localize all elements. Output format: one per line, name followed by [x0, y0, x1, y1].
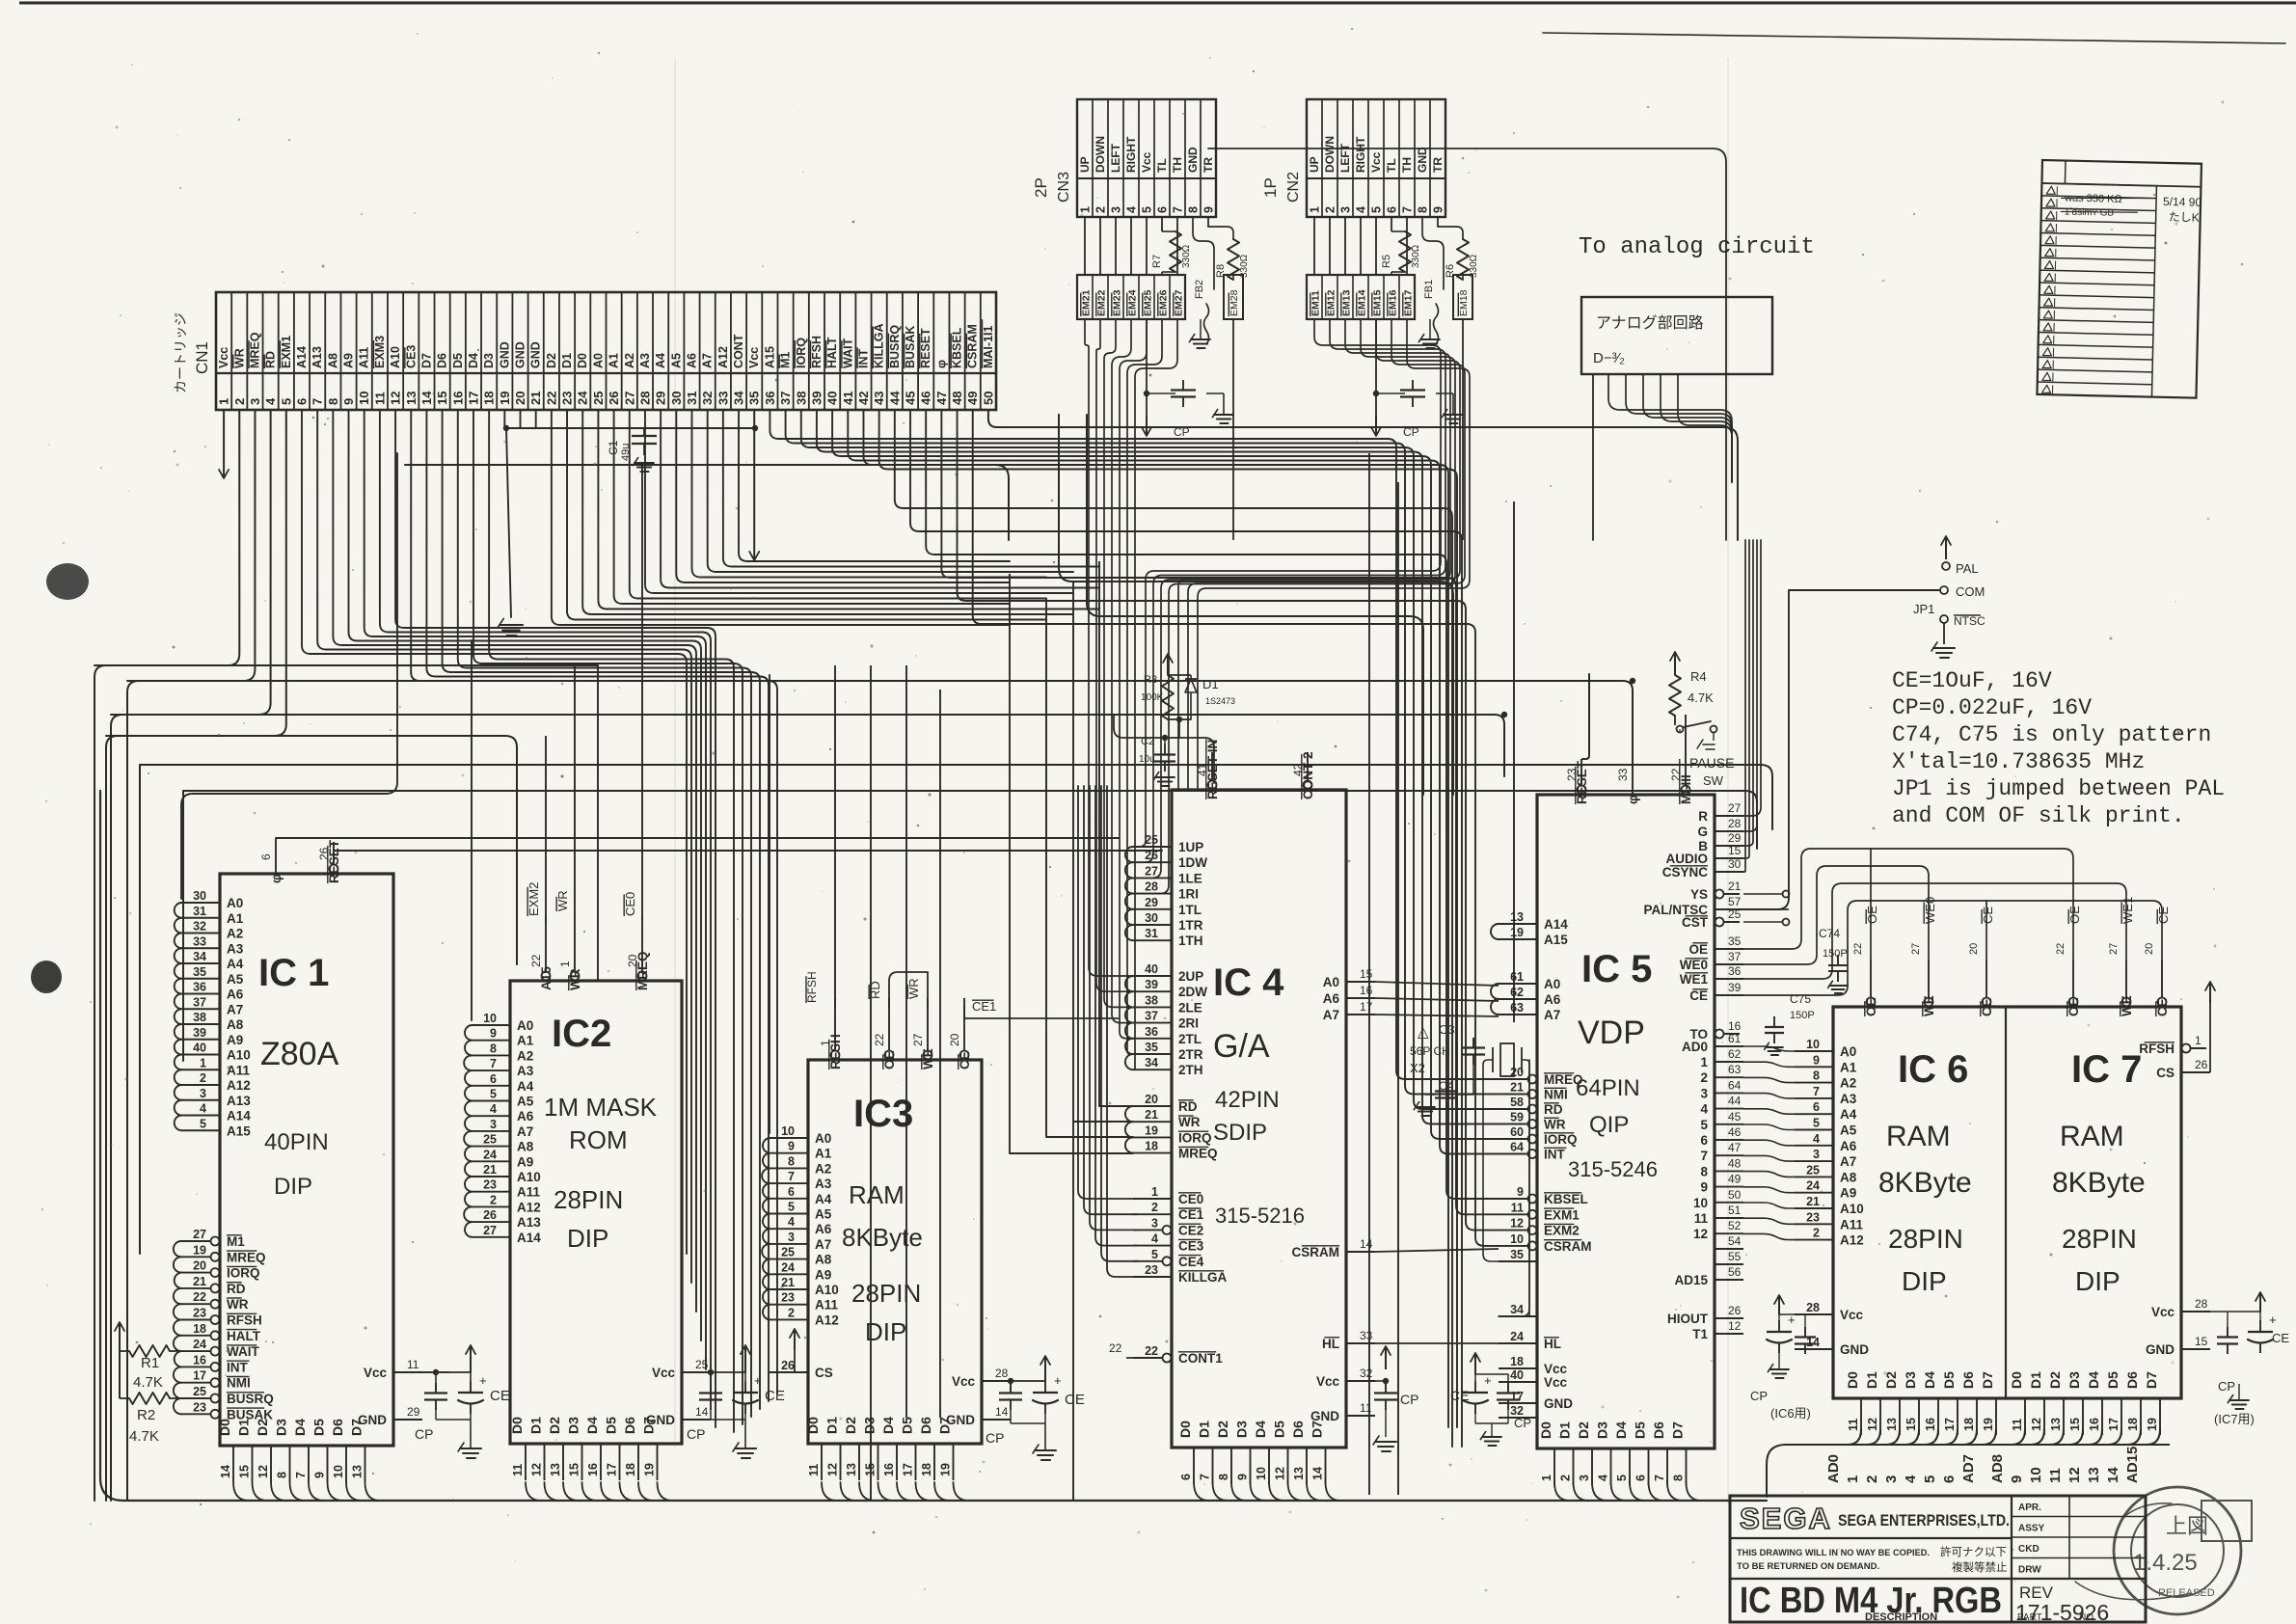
svg-text:A0: A0	[227, 896, 243, 910]
svg-text:A10: A10	[389, 346, 402, 368]
svg-text:2: 2	[1151, 1201, 1158, 1214]
scan ink blobs left margin	[31, 563, 89, 993]
svg-text:6: 6	[788, 1185, 795, 1199]
svg-text:CP: CP	[415, 1426, 433, 1442]
svg-text:OE: OE	[1864, 997, 1878, 1016]
svg-text:D6: D6	[622, 1417, 637, 1434]
svg-text:OE: OE	[1688, 942, 1708, 957]
svg-text:COM: COM	[1956, 584, 1985, 599]
svg-text:8KByte: 8KByte	[1878, 1167, 1972, 1199]
svg-text:D0: D0	[1845, 1371, 1860, 1389]
release stamp	[2075, 1487, 2252, 1614]
svg-text:D0: D0	[1177, 1421, 1193, 1438]
svg-text:33: 33	[193, 934, 206, 948]
svg-text:4: 4	[1597, 1475, 1610, 1481]
capacitors CE CP at IC6 + (IC6yo)	[1750, 1295, 1816, 1421]
svg-text:20: 20	[1510, 1066, 1524, 1079]
svg-text:19: 19	[193, 1243, 206, 1257]
svg-text:C2: C2	[1141, 736, 1154, 747]
svg-text:7: 7	[1653, 1475, 1666, 1481]
svg-text:A12: A12	[716, 346, 730, 368]
svg-text:34: 34	[732, 391, 746, 405]
svg-text:16: 16	[2088, 1418, 2101, 1431]
svg-text:2: 2	[1864, 1475, 1880, 1483]
svg-text:1: 1	[1151, 1185, 1158, 1199]
svg-text:R2: R2	[137, 1407, 155, 1423]
svg-text:10u: 10u	[1139, 754, 1155, 765]
svg-text:HALT: HALT	[825, 337, 839, 368]
svg-text:1: 1	[1309, 206, 1322, 213]
svg-text:EXM2: EXM2	[1544, 1224, 1580, 1238]
svg-text:36: 36	[1728, 964, 1742, 978]
svg-text:D1: D1	[2028, 1371, 2043, 1389]
svg-text:CE1: CE1	[1178, 1207, 1204, 1222]
svg-text:4: 4	[1813, 1132, 1820, 1146]
svg-text:35: 35	[1145, 1041, 1158, 1054]
svg-text:AUDIO: AUDIO	[1666, 852, 1709, 866]
svg-text:A3: A3	[227, 941, 244, 956]
svg-text:47: 47	[934, 392, 949, 405]
svg-text:3: 3	[248, 398, 262, 405]
svg-text:7: 7	[788, 1170, 795, 1183]
svg-text:16: 16	[450, 392, 465, 405]
svg-text:M1: M1	[227, 1234, 245, 1249]
svg-text:D0: D0	[217, 1419, 232, 1436]
svg-text:A8: A8	[517, 1140, 534, 1154]
capacitors CE CP at IC3	[986, 1356, 1085, 1460]
svg-text:27: 27	[911, 1033, 925, 1046]
svg-text:29: 29	[407, 1405, 420, 1419]
svg-text:8: 8	[1672, 1475, 1686, 1481]
svg-text:CP: CP	[1403, 425, 1419, 439]
svg-text:26: 26	[1145, 849, 1158, 862]
svg-text:A9: A9	[342, 353, 356, 368]
svg-text:UP: UP	[1078, 156, 1092, 173]
svg-text:GND: GND	[2146, 1342, 2174, 1357]
svg-text:D7: D7	[1670, 1421, 1686, 1439]
svg-text:RD: RD	[1178, 1099, 1198, 1114]
svg-text:11: 11	[511, 1464, 525, 1476]
svg-text:13: 13	[2086, 1467, 2102, 1483]
svg-text:D4: D4	[1253, 1421, 1268, 1438]
svg-text:50: 50	[1728, 1188, 1742, 1202]
capacitors CE CP at IC2	[687, 1345, 785, 1458]
capacitor C1 49u	[607, 428, 657, 472]
svg-text:7: 7	[311, 398, 325, 405]
svg-text:41: 41	[841, 392, 855, 405]
svg-text:36: 36	[193, 981, 206, 994]
svg-text:12: 12	[826, 1463, 840, 1476]
svg-text:35: 35	[1728, 934, 1742, 948]
svg-text:27: 27	[1728, 801, 1742, 815]
svg-text:19: 19	[1982, 1418, 1995, 1431]
svg-text:63: 63	[1728, 1063, 1742, 1076]
svg-text:14: 14	[695, 1405, 709, 1419]
svg-text:CONT1: CONT1	[1178, 1351, 1223, 1366]
svg-text:Vcc: Vcc	[364, 1366, 388, 1380]
svg-text:4: 4	[1125, 206, 1139, 213]
svg-text:10: 10	[1255, 1467, 1268, 1480]
svg-text:C3: C3	[1439, 1022, 1455, 1037]
svg-text:63: 63	[1510, 1001, 1524, 1015]
wire CN1 pin1 Vcc arrow	[219, 410, 229, 478]
svg-text:HL: HL	[1322, 1337, 1339, 1351]
svg-text:12: 12	[389, 392, 403, 405]
svg-text:15: 15	[1360, 967, 1373, 981]
labels above IC6 IC7 (OE WE0 CE / OE WE1 CE)	[1852, 897, 2171, 955]
svg-text:A10: A10	[517, 1170, 541, 1184]
svg-text:12: 12	[1866, 1418, 1879, 1431]
wire IC3 comb feeder	[769, 675, 770, 1133]
svg-text:Vcc: Vcc	[652, 1366, 676, 1380]
svg-text:40: 40	[1145, 962, 1158, 976]
svg-text:D2: D2	[843, 1417, 858, 1434]
svg-text:6: 6	[1941, 1475, 1958, 1483]
svg-text:複製等禁止: 複製等禁止	[1952, 1560, 2008, 1574]
svg-text:8: 8	[490, 1042, 497, 1055]
svg-text:7: 7	[490, 1057, 497, 1070]
svg-text:CS: CS	[815, 1366, 833, 1380]
wire HL IC4 to IC5	[1375, 1342, 1499, 1344]
svg-text:EM17: EM17	[1403, 289, 1415, 316]
svg-text:CE=1OuF, 16V: CE=1OuF, 16V	[1892, 668, 2052, 693]
svg-text:WE: WE	[1922, 995, 1936, 1016]
svg-text:12: 12	[530, 1463, 544, 1476]
svg-text:42PIN: 42PIN	[1215, 1087, 1280, 1113]
wire TR pins to right edge	[1208, 149, 1726, 540]
svg-text:IC 5: IC 5	[1581, 948, 1652, 990]
crystal X1 10.738635MHz + C3 C4 56P	[1375, 1022, 1529, 1316]
wires analog box to IC5 RGB bundle	[1593, 374, 1732, 540]
svg-text:D1: D1	[560, 353, 574, 368]
svg-text:CE: CE	[1450, 1388, 1469, 1403]
svg-text:DOWN: DOWN	[1323, 136, 1337, 173]
svg-text:X'tal=10.738635 MHz: X'tal=10.738635 MHz	[1892, 749, 2145, 774]
svg-text:56P CH: 56P CH	[1410, 1044, 1450, 1058]
svg-text:SEGA: SEGA	[1740, 1502, 1832, 1535]
svg-text:28: 28	[1145, 880, 1158, 894]
svg-text:A6: A6	[815, 1222, 832, 1236]
svg-text:MAI-1I1: MAI-1I1	[982, 326, 995, 369]
svg-text:1: 1	[1079, 206, 1093, 213]
svg-text:CONT 2: CONT 2	[1301, 751, 1315, 799]
svg-text:G/A: G/A	[1213, 1028, 1270, 1065]
IC IC5 VDP 64PIN QIP 315-5246	[1491, 759, 1743, 1485]
svg-text:A0: A0	[517, 1018, 533, 1033]
IC IC3 RAM 8KByte 28PIN DIP	[762, 998, 1011, 1480]
svg-text:43: 43	[872, 392, 886, 405]
svg-text:QIP: QIP	[1589, 1112, 1629, 1138]
svg-text:315-5216: 315-5216	[1215, 1204, 1305, 1228]
svg-text:D3: D3	[1903, 1371, 1918, 1389]
svg-text:OE: OE	[882, 1050, 897, 1069]
svg-text:Vcc: Vcc	[1544, 1362, 1568, 1376]
svg-text:TR: TR	[1431, 157, 1445, 173]
svg-text:18: 18	[1962, 1418, 1976, 1431]
svg-text:6: 6	[259, 853, 273, 860]
svg-text:18: 18	[1510, 1355, 1524, 1368]
svg-text:+: +	[1054, 1373, 1062, 1388]
svg-text:7: 7	[1199, 1474, 1212, 1480]
svg-text:PAUSE: PAUSE	[1689, 755, 1734, 771]
svg-text:A3: A3	[1840, 1092, 1857, 1106]
svg-text:A11: A11	[358, 347, 371, 368]
svg-text:28: 28	[1728, 817, 1742, 830]
svg-text:3: 3	[1578, 1475, 1591, 1481]
svg-text:17: 17	[1360, 1000, 1373, 1014]
svg-text:BUSRQ: BUSRQ	[227, 1392, 274, 1406]
svg-text:CE: CE	[1980, 998, 1994, 1016]
svg-text:23: 23	[483, 1178, 497, 1192]
svg-text:TR: TR	[1202, 157, 1215, 173]
svg-text:WR: WR	[1178, 1115, 1201, 1129]
svg-text:CE4: CE4	[1178, 1255, 1204, 1269]
svg-text:10: 10	[1693, 1196, 1708, 1210]
wire RFSH/CS at IC7 right	[2186, 982, 2215, 1072]
svg-text:35: 35	[1510, 1248, 1524, 1261]
svg-text:28PIN: 28PIN	[1888, 1224, 1963, 1254]
svg-text:A6: A6	[685, 353, 698, 368]
svg-text:13: 13	[1510, 910, 1524, 924]
svg-text:GND: GND	[1416, 147, 1429, 173]
svg-text:D2: D2	[255, 1419, 270, 1436]
wire CS arrow IC3	[770, 1329, 799, 1372]
svg-text:D3: D3	[1234, 1421, 1250, 1438]
svg-text:D2: D2	[2047, 1371, 2063, 1389]
svg-text:RD: RD	[227, 1282, 246, 1296]
svg-text:21: 21	[528, 392, 543, 405]
svg-text:D4: D4	[1613, 1421, 1629, 1439]
svg-text:WAIT: WAIT	[841, 338, 854, 368]
svg-text:7: 7	[1700, 1149, 1708, 1163]
svg-text:13: 13	[351, 1465, 365, 1478]
svg-text:R3: R3	[1144, 674, 1157, 686]
svg-text:18: 18	[193, 1322, 206, 1336]
svg-text:55: 55	[1728, 1250, 1742, 1263]
svg-text:上図: 上図	[2166, 1514, 2208, 1538]
svg-text:12: 12	[1693, 1227, 1708, 1241]
svg-text:WE0: WE0	[1680, 958, 1708, 972]
svg-text:62: 62	[1510, 986, 1524, 999]
svg-text:18: 18	[2126, 1418, 2140, 1431]
svg-text:61: 61	[1728, 1032, 1742, 1045]
svg-text:DRW: DRW	[2018, 1565, 2041, 1576]
svg-text:A3: A3	[517, 1064, 534, 1078]
svg-text:9: 9	[313, 1472, 327, 1478]
svg-text:MREQ: MREQ	[1178, 1147, 1218, 1161]
svg-text:SW: SW	[1703, 773, 1724, 788]
svg-text:21: 21	[1145, 1108, 1158, 1122]
svg-text:D4: D4	[584, 1417, 600, 1434]
svg-text:5: 5	[1370, 206, 1384, 213]
svg-text:2LE: 2LE	[1178, 1000, 1202, 1015]
svg-text:25: 25	[591, 392, 606, 405]
svg-text:13: 13	[845, 1463, 858, 1476]
svg-text:EXM1: EXM1	[1544, 1207, 1580, 1222]
svg-text:EXM1: EXM1	[280, 336, 293, 368]
svg-text:9: 9	[490, 1027, 497, 1041]
svg-text:12: 12	[257, 1465, 270, 1478]
svg-text:2: 2	[1094, 206, 1108, 213]
svg-text:21: 21	[193, 1275, 206, 1288]
svg-text:17: 17	[1510, 1390, 1524, 1403]
svg-text:EXM2: EXM2	[527, 882, 541, 916]
svg-text:AD7: AD7	[1960, 1454, 1977, 1483]
svg-text:DIP: DIP	[2075, 1266, 2120, 1296]
svg-text:1UP: 1UP	[1178, 840, 1203, 854]
svg-text:12: 12	[1274, 1467, 1287, 1480]
svg-text:20: 20	[2144, 943, 2155, 955]
svg-text:A13: A13	[227, 1094, 251, 1108]
svg-text:33: 33	[1360, 1329, 1373, 1342]
svg-text:4.7K: 4.7K	[129, 1428, 159, 1445]
svg-text:38: 38	[193, 1011, 206, 1024]
svg-text:ASSY: ASSY	[2018, 1524, 2045, 1534]
svg-text:8: 8	[1813, 1069, 1820, 1083]
svg-text:44: 44	[887, 391, 902, 405]
svg-text:2DW: 2DW	[1178, 985, 1207, 999]
svg-text:1S2473: 1S2473	[1205, 696, 1235, 706]
svg-text:22: 22	[544, 392, 558, 405]
svg-text:EM28: EM28	[1229, 289, 1240, 316]
svg-text:A11: A11	[227, 1063, 251, 1077]
resistors R1 R2 4.7K	[115, 1322, 181, 1445]
svg-text:14: 14	[2105, 1467, 2121, 1483]
svg-text:14: 14	[1311, 1467, 1325, 1480]
svg-text:TL: TL	[1385, 158, 1398, 173]
svg-text:CE3: CE3	[1178, 1239, 1204, 1254]
svg-text:29: 29	[654, 392, 668, 405]
svg-text:39: 39	[1728, 981, 1742, 994]
svg-text:17: 17	[606, 1463, 619, 1476]
svg-text:CE3: CE3	[404, 345, 418, 368]
svg-text:A0: A0	[1323, 975, 1339, 989]
svg-text:CP: CP	[986, 1430, 1004, 1446]
svg-text:D2: D2	[1215, 1421, 1230, 1438]
svg-text:MREQ: MREQ	[248, 332, 261, 368]
svg-text:Vcc: Vcc	[217, 347, 230, 368]
svg-text:CE: CE	[1689, 988, 1708, 1003]
svg-text:CSRAM: CSRAM	[1544, 1239, 1592, 1254]
svg-text:56: 56	[1728, 1265, 1742, 1279]
svg-text:A2: A2	[227, 927, 243, 941]
svg-text:SDIP: SDIP	[1213, 1120, 1267, 1146]
svg-text:WR: WR	[555, 890, 570, 911]
svg-text:D2: D2	[1576, 1421, 1591, 1439]
svg-text:11: 11	[407, 1358, 419, 1371]
svg-text:24: 24	[483, 1148, 497, 1161]
svg-text:17: 17	[193, 1369, 206, 1383]
svg-text:IORQ: IORQ	[1544, 1132, 1578, 1147]
svg-text:1M MASK: 1M MASK	[544, 1093, 658, 1122]
svg-text:A6: A6	[227, 988, 244, 1002]
svg-text:26: 26	[607, 392, 621, 405]
svg-text:1: 1	[558, 961, 572, 967]
svg-text:15: 15	[864, 1463, 878, 1476]
svg-text:50: 50	[981, 392, 995, 405]
svg-text:3: 3	[1883, 1475, 1900, 1483]
svg-text:26: 26	[781, 1359, 795, 1372]
svg-text:1ʼdѕimʏ GВ: 1ʼdѕimʏ GВ	[2065, 207, 2115, 219]
svg-text:18: 18	[920, 1463, 933, 1476]
svg-text:5: 5	[1615, 1475, 1629, 1481]
svg-text:2TH: 2TH	[1178, 1063, 1203, 1077]
svg-text:27: 27	[1145, 864, 1158, 878]
svg-text:8: 8	[1700, 1164, 1708, 1178]
svg-text:3: 3	[1151, 1216, 1158, 1230]
svg-text:11: 11	[1360, 1401, 1372, 1415]
svg-text:3: 3	[490, 1118, 497, 1131]
svg-text:LEFT: LEFT	[1109, 143, 1122, 173]
svg-text:OE: OE	[2066, 997, 2081, 1016]
svg-text:NMI: NMI	[227, 1376, 251, 1391]
svg-text:6: 6	[1179, 1474, 1193, 1480]
svg-text:D0: D0	[509, 1417, 525, 1434]
svg-text:IC2: IC2	[552, 1013, 611, 1055]
svg-text:D6: D6	[1290, 1421, 1306, 1438]
svg-text:25: 25	[1728, 907, 1742, 921]
svg-text:PART: PART	[2017, 1612, 2042, 1623]
svg-text:C74, C75 is only pattern: C74, C75 is only pattern	[1892, 722, 2211, 747]
svg-text:26: 26	[483, 1208, 497, 1222]
svg-text:D7: D7	[641, 1417, 657, 1434]
svg-text:6: 6	[1634, 1475, 1648, 1481]
svg-text:Vcc: Vcc	[747, 347, 761, 368]
svg-text:27: 27	[2108, 943, 2120, 955]
svg-text:22: 22	[529, 954, 543, 967]
svg-text:8: 8	[326, 398, 340, 405]
svg-text:AD15: AD15	[2124, 1447, 2141, 1483]
svg-text:WR: WR	[906, 978, 921, 999]
label 1P CN2	[1261, 172, 1302, 203]
svg-text:6: 6	[1156, 206, 1170, 213]
svg-text:AD0: AD0	[1825, 1454, 1842, 1483]
svg-text:2: 2	[232, 398, 247, 405]
svg-text:25: 25	[1145, 833, 1158, 847]
svg-text:CP: CP	[1514, 1416, 1531, 1430]
svg-text:Z80A: Z80A	[260, 1036, 339, 1072]
svg-text:D7: D7	[1310, 1421, 1325, 1438]
svg-text:6: 6	[294, 398, 309, 405]
svg-text:1RI: 1RI	[1178, 887, 1199, 902]
svg-text:RESET: RESET	[1575, 760, 1589, 804]
svg-text:A7: A7	[701, 353, 715, 368]
svg-text:RESET: RESET	[919, 328, 932, 368]
svg-text:GND: GND	[1840, 1342, 1869, 1357]
svg-text:D2: D2	[545, 353, 558, 368]
svg-text:27: 27	[622, 392, 636, 405]
svg-text:47: 47	[1728, 1141, 1742, 1154]
svg-text:RESET-IN: RESET-IN	[1205, 740, 1220, 799]
wire maze long runs	[95, 415, 1772, 1501]
svg-text:9: 9	[1813, 1053, 1820, 1067]
svg-text:RD: RD	[1544, 1102, 1563, 1117]
svg-text:A11: A11	[815, 1298, 839, 1313]
svg-text:5: 5	[1151, 1248, 1158, 1261]
svg-text:D5: D5	[2105, 1371, 2120, 1389]
wires A0 A6 A7 between IC4 and IC5	[1375, 982, 1499, 1016]
svg-text:INT: INT	[1544, 1148, 1566, 1162]
svg-text:9: 9	[341, 398, 356, 405]
svg-text:R7: R7	[1151, 255, 1163, 268]
svg-text:A6: A6	[1840, 1139, 1857, 1153]
svg-text:RFSH: RFSH	[805, 971, 819, 1003]
svg-text:1TH: 1TH	[1178, 934, 1203, 948]
svg-text:CS: CS	[2156, 1066, 2174, 1080]
svg-text:BUSRQ: BUSRQ	[888, 325, 902, 368]
svg-text:1: 1	[1700, 1055, 1708, 1069]
svg-text:WE: WE	[921, 1048, 935, 1069]
